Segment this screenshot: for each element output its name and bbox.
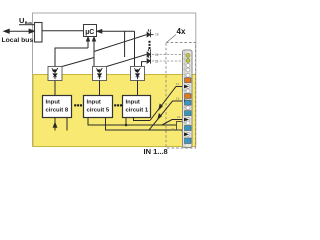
wire uC right line with arrow into uC (97, 30, 135, 33)
wire opto O1 to input circuit 8 (54, 81, 56, 96)
connector hole 1 (186, 64, 190, 68)
svg-text:12: 12 (176, 97, 180, 101)
wire UBus to bus interface (19, 24, 35, 26)
svg-text:Local bus: Local bus (2, 37, 34, 44)
svg-text:µC: µC (85, 29, 94, 36)
connector LED lens 2 (186, 59, 190, 63)
wire input 5 to terminal line B (106, 118, 185, 134)
dashed light link LED D1 to connector (152, 60, 183, 62)
wire down to optocoupler O3 (134, 31, 136, 66)
wire diagonal D1 uC stub to LED1 (94, 35, 147, 52)
optocoupler O2 (93, 67, 107, 81)
connector clamp orange 2 (185, 94, 192, 99)
svg-text:Input: Input (126, 100, 140, 106)
dashed repeat box (166, 43, 196, 149)
svg-text:21: 21 (177, 115, 181, 119)
dots between circuit 8 and 5 (74, 104, 82, 106)
connector column marks (184, 54, 185, 124)
yellow input section (33, 75, 196, 147)
wire input 8 stub with up arrow (53, 118, 56, 131)
terminal entry circle 22 (186, 132, 190, 136)
wire uC right data stub with up arrow (93, 37, 96, 67)
connector clamp orange 1 (185, 78, 192, 83)
input circuit 5 box (84, 96, 113, 118)
svg-text:11: 11 (155, 60, 159, 64)
svg-text:circuit 8: circuit 8 (46, 108, 69, 114)
connector hole 6 (186, 121, 190, 125)
wire bus interface to uC (42, 30, 84, 32)
svg-text:12: 12 (155, 53, 159, 57)
terminal entry circle 21 (186, 118, 190, 122)
module frame (33, 13, 196, 147)
op uC U1 (84, 25, 97, 37)
connector body (183, 50, 193, 148)
terminal entry arrow 21 (184, 118, 189, 122)
wire input 1 right stub step (134, 118, 151, 121)
wire opto O3 to input circuit 1 (137, 81, 139, 96)
terminal entry circle 11 (186, 85, 190, 89)
svg-text:U: U (19, 16, 24, 25)
dots between circuit 5 and 1 (114, 104, 122, 106)
node UBus label (19, 16, 32, 25)
LED D2 (147, 49, 151, 57)
dashed light link LED D2 to connector (152, 54, 183, 56)
terminal entry circle 12 (186, 99, 190, 103)
svg-text:IN 1...8: IN 1...8 (144, 147, 168, 156)
wire opto O1 join to stub (62, 58, 94, 67)
optocoupler O3 (131, 67, 145, 81)
local bus interface (35, 23, 43, 43)
terminal entry arrow 11 (184, 85, 189, 89)
wire input 8 stub down (66, 118, 68, 131)
wire branch to terminal 21 (162, 120, 184, 126)
svg-text:circuit 5: circuit 5 (87, 108, 110, 114)
wire diagonal to terminal 11 (150, 87, 182, 121)
input circuit 1 box (123, 96, 151, 118)
junction dot line A (125, 124, 128, 127)
wire opto O2 to input circuit 5 (99, 81, 101, 96)
svg-text:4x: 4x (177, 27, 186, 36)
connector clamp teal 1 (185, 100, 192, 105)
optocoupler O1 (48, 67, 62, 81)
svg-text:22: 22 (171, 128, 175, 132)
svg-text:circuit 1: circuit 1 (126, 108, 149, 114)
svg-text:Input: Input (87, 100, 101, 106)
terminal entry arrow 22 (184, 133, 189, 137)
terminal entry arrow 12 (184, 99, 189, 103)
wire diagonal D2 opto O1 to LED2 (107, 54, 147, 66)
connector hole 2 (186, 68, 190, 72)
connector hole 4 (186, 89, 190, 93)
connector hole 3 (186, 73, 190, 77)
wire input 5 to terminal line A (88, 118, 177, 126)
wire input 1 left stub to line A (125, 118, 127, 126)
wire stub down from uC line (124, 31, 126, 57)
connector hole 5 (186, 106, 190, 110)
connector inner column line (184, 51, 186, 148)
input circuit 8 box (43, 96, 72, 118)
connector clamp teal 2 (185, 138, 192, 144)
wire diagonal to terminal 12 (149, 101, 182, 130)
connector clamp blue 2 (185, 126, 192, 131)
LED D1 (147, 56, 151, 64)
dots LED column (149, 41, 151, 49)
svg-text:Input: Input (46, 100, 60, 106)
resistor box at connector (177, 122, 184, 131)
svg-text:18: 18 (155, 33, 159, 37)
wire uC left data stub with up arrow (87, 37, 90, 48)
local bus double arrow (4, 29, 34, 33)
svg-text:11: 11 (176, 82, 179, 86)
leader 4x to dashed box (167, 35, 177, 43)
connector LED lens 1 (186, 54, 190, 58)
wire horizontal collector to opto O1 (55, 48, 88, 67)
LED D8 (147, 29, 153, 37)
connector clamp blue 1 (185, 111, 192, 116)
wire elbow opto O3 to LED3 (142, 62, 147, 67)
